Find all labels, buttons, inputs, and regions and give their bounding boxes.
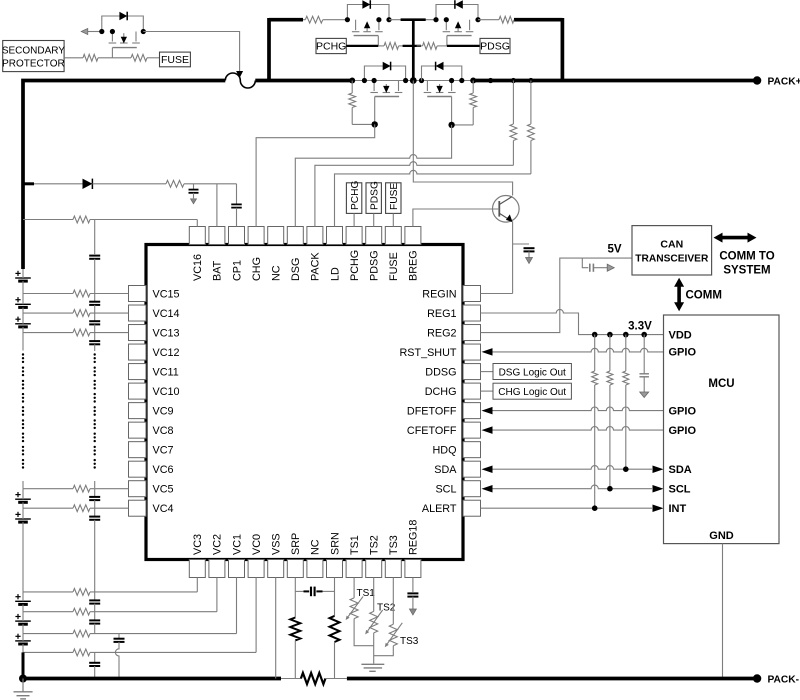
wire bold tee on center vertical at gate line <box>403 45 421 47</box>
wire SRN pin with bold filter resistor to shunt right <box>334 578 336 616</box>
box FUSE net label <box>160 52 191 67</box>
wire sense resistor right lead <box>325 678 347 680</box>
capacitor C4 BAT filter to ground arrow <box>193 184 195 190</box>
svg-text:FUSE: FUSE <box>388 252 400 281</box>
arrow double-headed COMM between CAN and MCU <box>677 283 681 306</box>
svg-text:RST_SHUT: RST_SHUT <box>400 347 457 359</box>
wire precharge rail thin right segment <box>389 19 436 21</box>
node PACK- terminal dot <box>753 674 761 682</box>
wire MCU GND to PACK- rail <box>722 544 724 679</box>
svg-text:SDA: SDA <box>434 464 457 476</box>
wire PACK+ rail thick left section with corner down the left side <box>23 81 225 270</box>
transistor Q2 channel gate and bulk arrow <box>426 81 428 92</box>
svg-text:TS2: TS2 <box>369 535 381 555</box>
svg-text:REG18: REG18 <box>408 520 420 555</box>
IC U1 left pin boxes <box>129 286 147 302</box>
box DSG Logic Out net label <box>481 371 494 373</box>
wire REG1 to 3.3V rail with hop over 5V line <box>481 309 664 334</box>
node Q1 gate node dot <box>372 121 378 127</box>
svg-text:VC3: VC3 <box>192 534 204 555</box>
svg-text:SCL: SCL <box>435 484 456 496</box>
svg-text:SRP: SRP <box>290 533 302 555</box>
capacitor C5 CP1 charge pump cap <box>236 184 238 204</box>
battery cell BT3 <box>15 323 31 325</box>
svg-text:CHG: CHG <box>251 257 263 281</box>
battery cell BT8 <box>15 640 31 642</box>
wire fuse FET source line with left arrow <box>88 31 102 33</box>
ellipsis dotted battery column <box>22 353 24 355</box>
wire VC1 tap line with filter resistor to bottom pin <box>23 633 73 635</box>
IC U1 right pin boxes <box>463 286 481 302</box>
svg-text:SYSTEM: SYSTEM <box>723 265 770 277</box>
resistor R3 precharge current limit <box>305 16 323 23</box>
transistor Q4 channel gate and bulk arrow <box>445 20 447 31</box>
transistor Q5 fuse-blow NMOS body-diode loop <box>102 16 144 32</box>
wire BREG pin to Q6 base <box>413 209 499 227</box>
svg-text:COMM: COMM <box>686 290 722 302</box>
transistor Q1 channel gate and bulk arrow <box>373 81 375 92</box>
transistor Q6 NPN preregulator pass transistor <box>493 196 520 223</box>
battery cell BT6 <box>15 600 31 602</box>
svg-text:VC7: VC7 <box>153 444 174 456</box>
wire predischarge top rail thick right segment <box>514 18 562 22</box>
ground main system ground symbol <box>22 679 24 692</box>
transistor Q4 PDSG PFET body-diode loop <box>436 5 478 20</box>
svg-text:TRANSCEIVER: TRANSCEIVER <box>635 254 709 265</box>
wire thick stub to BAT diode <box>22 182 35 185</box>
arrow double-headed COMM TO SYSTEM <box>719 236 751 240</box>
svg-text:PCHG: PCHG <box>349 250 361 281</box>
resistor R4 predischarge current limit <box>499 16 514 23</box>
node dots on 3.3V rail <box>592 332 598 338</box>
thermistor TS1 <box>353 578 355 598</box>
svg-text:NC: NC <box>271 265 283 281</box>
battery cell BT1 <box>15 277 31 279</box>
wire Q2 gate to DSG pin with hop over center vertical <box>295 125 451 227</box>
wire battery column segments group1 <box>22 269 24 278</box>
svg-text:VC6: VC6 <box>153 464 174 476</box>
wire PACK pin line with hop <box>315 162 514 227</box>
wire DFETOFF line from MCU GPIO with hops and arrow <box>484 407 664 411</box>
resistor R16 current sense shunt (bold) <box>301 673 326 684</box>
wire REG2 to 5V rail to CAN transceiver <box>481 258 633 333</box>
transistor Q5 channel and gate <box>111 32 113 42</box>
wire thick vertical from predischarge rail down to main rail <box>561 18 565 81</box>
svg-text:DSG: DSG <box>290 258 302 281</box>
svg-text:CAN: CAN <box>660 239 683 251</box>
IC U1 BQ76952 battery monitor body <box>146 245 463 560</box>
box U2 MCU <box>664 315 780 544</box>
wire VC3 tap line with filter resistor to bottom pin <box>23 591 73 593</box>
svg-text:REG1: REG1 <box>427 308 456 320</box>
svg-text:INT: INT <box>669 503 687 515</box>
svg-text:VC16: VC16 <box>192 254 204 281</box>
wire CFETOFF line from MCU GPIO with hops and arrow <box>484 426 664 430</box>
wire battery negative thick lead to PACK- rail <box>22 652 25 678</box>
capacitor C13 VC2-VC1 filter <box>94 612 96 621</box>
svg-text:PDSG: PDSG <box>370 181 381 210</box>
node dots on predischarge rail <box>433 17 438 22</box>
transistor Q3 channel gate and bulk arrow <box>355 20 357 31</box>
battery cell BT4 <box>15 498 31 500</box>
IC U1 top pin boxes <box>189 227 205 245</box>
diode body diode of Q5 <box>119 12 127 21</box>
wire sense resistor left lead <box>281 678 301 680</box>
resistor R9 PACK pin to PACK+ rail <box>512 81 514 125</box>
svg-text:TS1: TS1 <box>349 535 361 555</box>
wire VC14 cell tap line with filter resistor <box>23 312 73 314</box>
wire SCL line with hop and arrows both ends <box>484 485 653 489</box>
diode body diode of Q4 <box>455 0 463 9</box>
ellipsis dotted cap column <box>94 353 96 355</box>
svg-text:SDA: SDA <box>669 464 692 476</box>
node dots on main rail at Q1 <box>349 78 355 84</box>
svg-text:DDSG: DDSG <box>425 366 456 378</box>
wire VC15 cell tap line with filter resistor <box>23 293 73 295</box>
capacitor C17 REG18 bypass with ground arrow <box>412 578 414 593</box>
wire VSS pin to PACK- rail <box>275 578 277 679</box>
svg-text:VC4: VC4 <box>153 503 174 515</box>
wire VC13 cell tap line with filter resistor <box>23 332 73 334</box>
wire SDA line with hops and arrows both ends <box>484 466 653 470</box>
capacitor C6 VC16-VC15 filter <box>89 255 100 257</box>
resistor R7 Q1 gate-source <box>351 81 353 94</box>
IC U1 bottom pin boxes <box>189 560 205 578</box>
battery cell BT2 <box>15 303 31 305</box>
box FUSE net label above pin <box>386 183 401 214</box>
wire LD pin line with hop <box>335 170 531 226</box>
wire VC0 tap line with filter resistor to bottom pin <box>23 651 73 653</box>
resistor R11 pull-up on INT line <box>594 335 596 371</box>
resistor R5 Q3 gate to center node <box>384 43 399 50</box>
wire battery column resume above VC5 <box>22 481 24 489</box>
svg-text:COMM TO: COMM TO <box>719 251 774 263</box>
box CHG Logic Out net label <box>481 390 494 392</box>
wire PACK+ rail thick right section to PACK+ terminal <box>473 79 757 83</box>
capacitor C9 below VC13 <box>94 333 96 342</box>
svg-text:DCHG: DCHG <box>425 386 457 398</box>
capacitor C2 on 5V rail with ground arrow <box>582 258 588 268</box>
svg-text:GPIO: GPIO <box>669 405 697 417</box>
svg-text:VC2: VC2 <box>212 534 224 555</box>
svg-text:VC11: VC11 <box>153 366 179 378</box>
svg-text:VC10: VC10 <box>153 386 180 398</box>
transistor Q3 PCHG PFET body-diode loop <box>347 5 389 20</box>
capacitor C14 VC1 bypass with hop over VC0 line <box>118 634 120 639</box>
wire PACK- rail thick left segment <box>23 677 281 681</box>
resistor R1 secondary protector to fuse FET gate <box>83 54 98 61</box>
resistor R15 VC16 filter <box>73 216 90 223</box>
svg-text:SRN: SRN <box>329 532 341 555</box>
wire PCHG box to Q3 gate (bold) <box>346 45 378 47</box>
resistor R2 gate node to FUSE net <box>131 54 147 61</box>
resistor R13 pull-up on SDA line <box>625 335 627 371</box>
svg-text:3.3V: 3.3V <box>628 321 652 333</box>
svg-text:PACK-: PACK- <box>768 675 800 686</box>
wire main rail thin section through CHG/DSG FETs <box>352 80 473 82</box>
svg-text:TS3: TS3 <box>400 636 419 647</box>
wire Q6 emitter down to REGIN with cap branch <box>512 222 514 294</box>
svg-text:DSG Logic Out: DSG Logic Out <box>499 368 566 379</box>
svg-text:VC13: VC13 <box>153 327 180 339</box>
svg-text:GPIO: GPIO <box>669 347 697 359</box>
svg-text:CHG Logic Out: CHG Logic Out <box>498 387 566 398</box>
wire fuse FET drain to fuse blow point <box>143 32 239 72</box>
battery cell BT5 <box>15 518 31 520</box>
node junction dots on fuse FET line <box>99 29 104 34</box>
capacitor C1 on REGIN node <box>513 243 529 245</box>
wire VC5 tap line with filter resistor <box>23 488 73 490</box>
svg-text:VC0: VC0 <box>251 534 263 555</box>
svg-text:CFETOFF: CFETOFF <box>407 425 457 437</box>
resistor R8 Q2 gate-source <box>472 81 474 94</box>
node dots on precharge rail <box>345 17 350 22</box>
svg-text:BREG: BREG <box>408 250 420 281</box>
svg-text:TS1: TS1 <box>357 588 376 599</box>
transistor Q1 CHG NFET body-diode loop <box>364 66 405 81</box>
wire center node down to BJT collector <box>413 81 512 196</box>
svg-text:VC12: VC12 <box>153 347 180 359</box>
svg-text:FUSE: FUSE <box>161 54 189 66</box>
svg-text:HDQ: HDQ <box>433 444 457 456</box>
svg-text:REGIN: REGIN <box>422 288 456 300</box>
wire center vertical between top rail and main rail <box>412 21 415 81</box>
svg-text:VC1: VC1 <box>231 534 243 555</box>
svg-text:MCU: MCU <box>708 378 734 390</box>
resistor R14 BAT filter <box>166 180 184 187</box>
wire precharge top rail thick left segment <box>269 18 303 22</box>
svg-text:5V: 5V <box>607 244 621 256</box>
diode body diode of Q1 <box>383 62 391 71</box>
wire SRP pin with bold filter resistor to shunt left <box>294 578 296 618</box>
svg-text:VC15: VC15 <box>153 288 180 300</box>
thermistor TS2 <box>373 578 375 612</box>
svg-text:GPIO: GPIO <box>669 425 697 437</box>
svg-text:VC9: VC9 <box>153 405 174 417</box>
svg-text:PCHG: PCHG <box>316 41 346 53</box>
svg-text:VC8: VC8 <box>153 425 174 437</box>
svg-text:TS3: TS3 <box>388 535 400 555</box>
svg-text:FUSE: FUSE <box>389 183 400 210</box>
resistor R10 LD pin to PACK+ rail <box>530 81 532 125</box>
svg-text:VDD: VDD <box>669 329 692 341</box>
box PDSG gate net label <box>480 38 510 53</box>
capacitor C7 VC15-VC14 filter <box>94 294 96 302</box>
capacitor C16 SRP-SRN filter (bold) <box>295 590 303 592</box>
node center junction dot on main rail <box>410 77 417 84</box>
capacitor C10 VC5-VC4 filter <box>94 489 96 497</box>
wire ALERT line to MCU INT with arrow <box>481 507 653 509</box>
wire BAT line down to BAT pin <box>216 184 218 227</box>
box PCHG gate net label <box>316 38 346 53</box>
wire Q1 gate to CHG pin <box>256 124 375 226</box>
arrow pointing down into fuse <box>236 71 243 78</box>
svg-text:BAT: BAT <box>212 260 224 281</box>
node cap chain branch <box>94 220 96 255</box>
wire VC16 top cell tap line <box>23 219 73 221</box>
wire VC4 tap line with filter resistor <box>23 507 73 509</box>
svg-text:SCL: SCL <box>669 484 691 496</box>
diode D1 BAT supply diode <box>34 183 83 185</box>
svg-text:PACK+: PACK+ <box>768 76 800 87</box>
box SECONDARY PROTECTOR <box>3 41 64 72</box>
svg-text:PROTECTOR: PROTECTOR <box>2 59 65 70</box>
wire thick vertical riser to precharge rail <box>267 18 271 81</box>
wire gate node segment <box>98 57 131 59</box>
capacitor C15 VC0 bypass <box>94 652 96 662</box>
box PCHG net label above pin <box>346 183 361 214</box>
wire to FUSE box <box>147 57 160 59</box>
wire battery positive thick lead <box>22 81 25 270</box>
transistor Q2 DSG NFET body-diode loop <box>422 66 462 81</box>
svg-text:PCHG: PCHG <box>350 180 361 210</box>
capacitor C12 VC3-VC2 filter <box>94 592 96 601</box>
wire gate line from secondary protector <box>64 57 83 59</box>
svg-text:PACK: PACK <box>310 252 322 281</box>
svg-text:SECONDARY: SECONDARY <box>2 46 65 57</box>
wire precharge rail thin segment with resistor <box>303 19 305 21</box>
diode body diode of Q2 <box>436 62 444 71</box>
svg-text:NC: NC <box>310 539 322 555</box>
capacitor C8 VC14-VC13 filter <box>94 313 96 321</box>
node battery negative junction dot <box>19 675 27 683</box>
ground thermistor common ground symbol <box>361 663 384 665</box>
wire RST_SHUT line from MCU GPIO with hops and arrow <box>484 348 664 352</box>
svg-text:PDSG: PDSG <box>480 41 510 53</box>
svg-text:VC14: VC14 <box>153 308 180 320</box>
capacitor C3 3.3V decoupling with ground arrow <box>643 335 645 374</box>
wire predischarge rail segment and resistor <box>478 19 499 21</box>
svg-text:DFETOFF: DFETOFF <box>407 405 457 417</box>
box U3 CAN TRANSCEIVER <box>632 226 712 275</box>
box PDSG net label above pin <box>366 183 381 214</box>
wire VC2 tap line with filter resistor to bottom pin <box>23 611 73 613</box>
wire PACK+ rail thick middle section <box>255 79 353 83</box>
thermistor TS3 <box>392 578 394 625</box>
svg-text:GND: GND <box>709 530 734 542</box>
svg-text:ALERT: ALERT <box>422 503 457 515</box>
resistor R12 pull-up on SCL line <box>609 335 611 371</box>
svg-text:REG2: REG2 <box>427 327 456 339</box>
svg-text:CP1: CP1 <box>231 260 243 281</box>
svg-text:PDSG: PDSG <box>369 250 381 281</box>
diode body diode of Q3 <box>362 0 370 9</box>
svg-text:LD: LD <box>329 267 341 281</box>
resistor R6 Q4 gate to center node <box>417 45 423 47</box>
battery cell BT7 <box>15 620 31 622</box>
wire Q4 gate to PDSG box (bold) <box>447 45 480 47</box>
svg-text:VSS: VSS <box>271 533 283 555</box>
node Q2 gate node dot <box>448 122 454 128</box>
wire bold tee at top of center vertical <box>401 18 426 21</box>
chemical fuse F1 on PACK+ rail (S-curve symbol) <box>225 73 255 88</box>
node PACK+ terminal dot <box>753 76 761 84</box>
capacitor C11 VC4 to VC3 section filter <box>94 508 96 516</box>
wire PACK- rail thick right segment to PACK- terminal <box>347 677 757 681</box>
svg-text:VC5: VC5 <box>153 484 174 496</box>
node dots on main rail at Q2 <box>449 78 454 83</box>
